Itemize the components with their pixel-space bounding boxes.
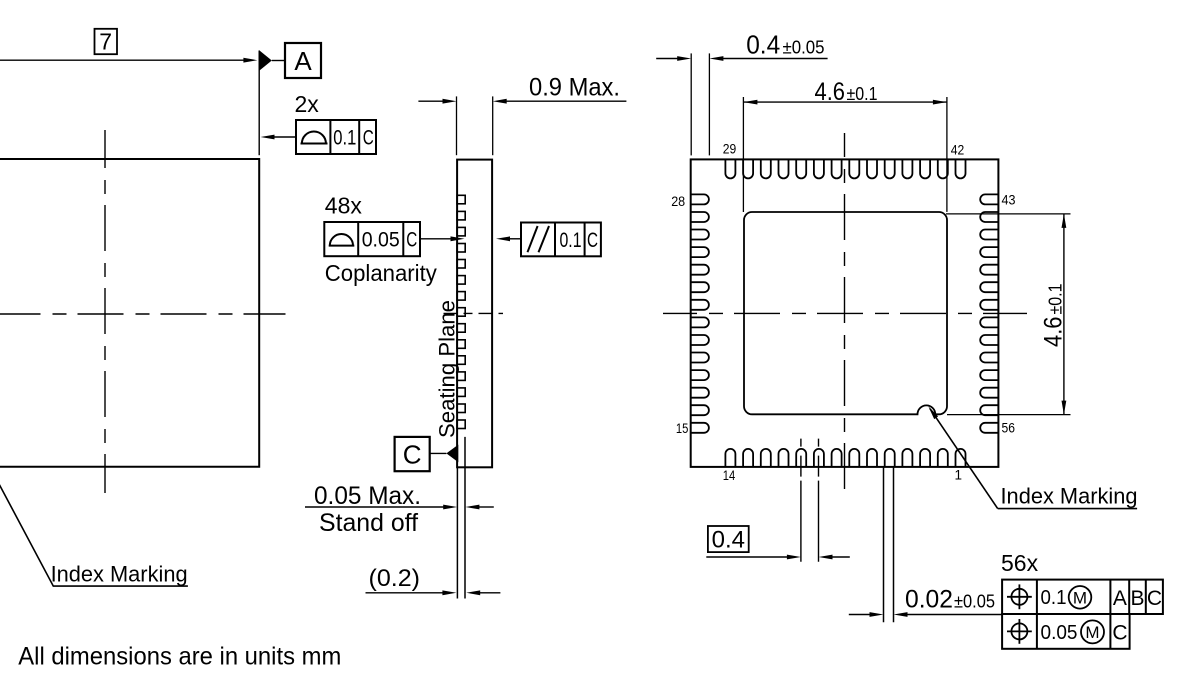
0.02 dimension line and arrows: [849, 614, 871, 616]
index marking leader with arrow: [930, 409, 998, 509]
svg-text:14: 14: [723, 468, 736, 483]
side view package body outline: [457, 160, 492, 468]
svg-text:15: 15: [676, 421, 689, 436]
parallelism frame leader arrow: [508, 238, 521, 240]
svg-text:A: A: [1113, 587, 1127, 610]
svg-text:56: 56: [1002, 421, 1016, 436]
svg-text:Index Marking: Index Marking: [1001, 484, 1138, 509]
svg-text:48x: 48x: [325, 193, 363, 219]
top row terminal pads pins 29-42: [725, 159, 735, 178]
svg-text:All dimensions are in units mm: All dimensions are in units mm: [18, 643, 341, 671]
left view package body outline: [0, 159, 259, 467]
bottom view horizontal centerline: [663, 312, 1027, 314]
bottom view package body outline: [691, 159, 999, 467]
svg-text:M: M: [1073, 589, 1087, 608]
4.6 horizontal dimension line and arrows: [743, 101, 947, 103]
left view horizontal centerline: [0, 313, 286, 315]
svg-text:43: 43: [1002, 193, 1016, 208]
side view horizontal centerline: [444, 312, 504, 314]
datum C connector line: [430, 452, 447, 454]
feature control frame 2x leader arrow: [273, 136, 296, 138]
datum C label box: [395, 437, 430, 471]
position symbol row 1: [1011, 589, 1027, 605]
bottom row terminal pads pins 14-1: [725, 449, 735, 467]
left column terminal pads pins 28-15: [691, 194, 709, 204]
left view index marking leader: [0, 467, 188, 586]
0.4 pitch extension lines: [690, 53, 692, 155]
pad pitch dashed centerlines: [800, 439, 802, 562]
feature control frame 48x leader arrow: [420, 238, 452, 240]
position tolerance frame row 2 box: [1002, 614, 1130, 649]
svg-text:(0.2): (0.2): [369, 565, 421, 592]
datum C triangle on seating plane: [446, 445, 458, 463]
svg-text:B: B: [1130, 587, 1144, 610]
4.6 horizontal extension lines: [742, 97, 744, 212]
0.4 pitch dimension line and arrows: [706, 556, 788, 558]
boxed 0.4 pitch dimension label: [708, 526, 749, 552]
exposed pad with index notch: [744, 212, 947, 414]
svg-text:Index Marking: Index Marking: [51, 562, 188, 587]
svg-text:0.1: 0.1: [333, 127, 356, 150]
svg-text:2x: 2x: [295, 91, 320, 117]
svg-text:0.05: 0.05: [1041, 622, 1078, 644]
svg-text:56x: 56x: [1001, 550, 1039, 576]
svg-text:28: 28: [671, 194, 685, 209]
svg-text:4.6: 4.6: [815, 78, 846, 106]
svg-text:1: 1: [955, 468, 963, 483]
4.6 vertical extension lines: [946, 213, 1071, 215]
dimension 7 leader line with arrow: [0, 59, 245, 61]
0.9 Max. dimension extension lines: [456, 96, 458, 155]
svg-text:C: C: [587, 229, 598, 252]
right column terminal pads pins 43-56: [980, 194, 998, 204]
side view terminal lead below seating plane: [456, 467, 458, 598]
0.4 dimension line and arrows: [656, 58, 678, 60]
boxed dimension label 7: [95, 29, 118, 54]
svg-text:Seating Plane: Seating Plane: [435, 300, 460, 438]
side view terminal bumps (48 leads): [457, 195, 465, 204]
datum A extension line: [258, 51, 260, 156]
(0.2) dimension line and arrows: [366, 592, 444, 594]
svg-text:0.05 Max.: 0.05 Max.: [314, 482, 421, 510]
svg-text:42: 42: [951, 143, 965, 158]
4.6 vertical dimension line and arrows: [1063, 214, 1065, 415]
svg-text:0.02: 0.02: [905, 586, 953, 614]
position tolerance frame row 1 box: [1002, 580, 1163, 614]
svg-text:Coplanarity: Coplanarity: [325, 260, 437, 286]
svg-text:M: M: [1085, 623, 1099, 642]
svg-text:A: A: [294, 46, 312, 76]
svg-text:0.1: 0.1: [1041, 587, 1067, 609]
svg-text:0.1: 0.1: [560, 229, 582, 252]
svg-text:C: C: [1147, 587, 1162, 610]
datum A triangle: [259, 50, 272, 71]
svg-text:0.4: 0.4: [712, 527, 745, 554]
svg-text:0.05: 0.05: [362, 229, 400, 252]
svg-text:0.9 Max.: 0.9 Max.: [529, 74, 620, 102]
svg-text:C: C: [403, 440, 422, 470]
parallelism frame // 0.1 C: [521, 223, 601, 257]
0.05 Max. stand off dimension line and arrows: [305, 506, 444, 508]
svg-text:±0.1: ±0.1: [847, 84, 878, 104]
terminal projection lines for 0.02 dimension: [883, 467, 885, 622]
svg-text:C: C: [1112, 622, 1127, 645]
svg-text:0.4: 0.4: [746, 30, 780, 60]
datum A connector line: [272, 60, 285, 62]
position symbol row 2: [1011, 623, 1027, 639]
0.9 Max. dimension line and arrows: [418, 100, 444, 102]
feature control frame 2x surface profile 0.1 C: [296, 120, 376, 154]
svg-text:Stand off: Stand off: [319, 509, 418, 537]
bottom view vertical centerline: [844, 133, 846, 490]
svg-text:±0.05: ±0.05: [783, 38, 825, 58]
svg-text:C: C: [406, 229, 417, 252]
left view vertical centerline: [104, 130, 106, 493]
svg-text:±0.05: ±0.05: [954, 592, 995, 612]
feature control frame 48x surface profile 0.05 C: [324, 222, 420, 256]
svg-text:C: C: [363, 127, 374, 150]
datum A label box: [285, 43, 321, 78]
svg-text:29: 29: [723, 142, 737, 157]
svg-text:7: 7: [99, 29, 112, 55]
